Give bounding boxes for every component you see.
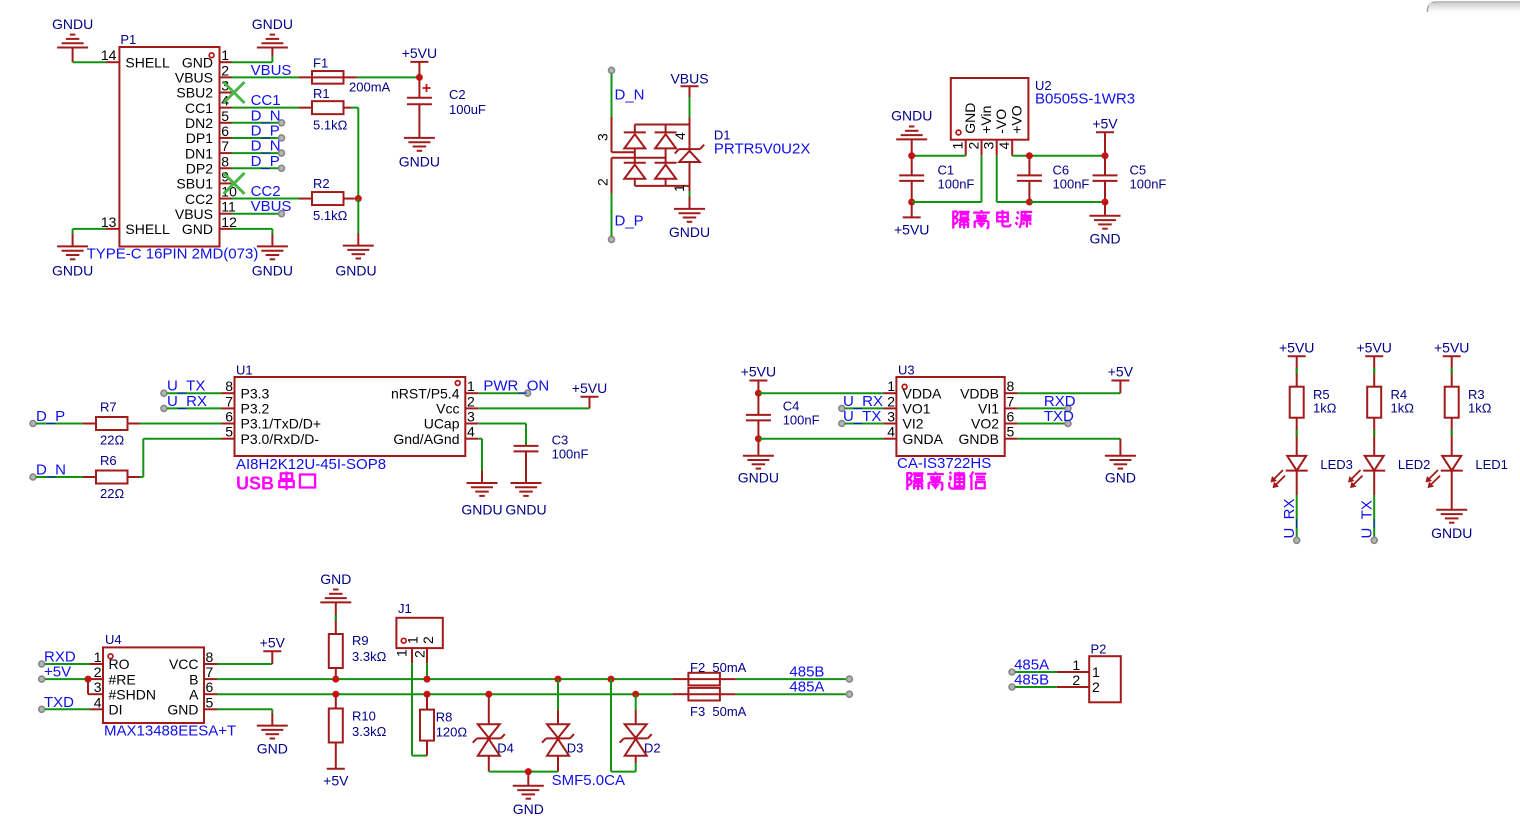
ground GNDU top-left <box>52 16 93 62</box>
svg-text:TXD: TXD <box>44 694 74 711</box>
part number PRTR5V0U2X <box>714 141 810 158</box>
svg-text:4: 4 <box>94 694 102 710</box>
svg-text:11: 11 <box>221 199 236 215</box>
part number B0505S-1WR3 <box>1035 91 1135 108</box>
svg-text:F1: F1 <box>313 56 328 71</box>
svg-text:3.3kΩ: 3.3kΩ <box>352 724 387 739</box>
wire GNDB to GND <box>1018 439 1121 456</box>
designator D1 <box>714 127 731 142</box>
svg-text:1: 1 <box>887 378 895 394</box>
IC U2 isolated DCDC <box>950 78 1029 156</box>
svg-text:1kΩ: 1kΩ <box>1468 401 1492 416</box>
power +5V below R10 <box>323 769 349 789</box>
svg-text:C3: C3 <box>552 433 569 448</box>
net label VBUS pin11 <box>251 198 292 217</box>
power +5VU <box>402 45 437 77</box>
label isolated comms (magenta) <box>907 472 986 491</box>
net label U_RX to U3 <box>839 393 884 412</box>
label USB serial (magenta) <box>236 472 315 494</box>
wire pin14 to GNDU <box>73 61 106 63</box>
svg-text:3: 3 <box>94 679 102 695</box>
net label VBUS <box>251 62 292 79</box>
net label RXD <box>1018 393 1076 412</box>
svg-text:-VO: -VO <box>993 109 1009 134</box>
svg-text:DI: DI <box>109 702 123 718</box>
svg-text:SHELL: SHELL <box>125 221 170 237</box>
fuse F1 200mA <box>299 56 391 95</box>
svg-text:100uF: 100uF <box>449 102 486 117</box>
capacitor C4 100nF <box>746 393 820 439</box>
capacitor C2 100uF polarized <box>407 77 486 138</box>
svg-text:+VO: +VO <box>1009 105 1025 134</box>
wire pin13 to GNDU <box>73 229 106 247</box>
wire LED3 cathode to U_RX <box>1294 471 1300 544</box>
power +5VU left of U3 <box>741 364 776 394</box>
svg-text:#SHDN: #SHDN <box>109 686 156 702</box>
wire U2 pin4 to +5V <box>1012 155 1105 157</box>
wire net D_N pin7 <box>232 152 279 154</box>
svg-text:7: 7 <box>206 664 214 680</box>
svg-text:D4: D4 <box>497 740 514 755</box>
svg-text:120Ω: 120Ω <box>436 725 468 740</box>
svg-text:GND: GND <box>513 801 544 817</box>
net label CC2 <box>251 183 281 200</box>
svg-text:+5VU: +5VU <box>1279 339 1314 355</box>
ground GND below U4 <box>257 726 288 757</box>
svg-text:F3 50mA: F3 50mA <box>690 704 747 719</box>
wire net CC2 pin10 <box>232 198 300 200</box>
svg-text:1kΩ: 1kΩ <box>1313 401 1337 416</box>
net label 485B to P2 <box>1009 672 1057 691</box>
svg-text:R1: R1 <box>313 86 330 101</box>
svg-text:100nF: 100nF <box>783 413 820 428</box>
svg-text:+5V: +5V <box>1092 115 1118 131</box>
ground GNDU top (pin1) <box>252 16 293 48</box>
svg-text:2: 2 <box>887 393 895 409</box>
junction C6 top <box>1026 152 1033 159</box>
svg-text:MAX13488EESA+T: MAX13488EESA+T <box>104 723 236 740</box>
TVS diode D4 <box>473 694 505 771</box>
designator LED3 <box>1320 457 1353 472</box>
svg-text:6: 6 <box>221 123 229 139</box>
svg-text:GNDU: GNDU <box>669 224 710 240</box>
net label RXD to U4 <box>39 649 90 668</box>
wire J1 pin1 down to R8 bottom <box>412 663 427 755</box>
resistor R6 22ohm <box>83 453 140 501</box>
net label D_N <box>251 107 285 126</box>
power +5V above U4 VCC <box>260 634 286 651</box>
net label U_TX to U3 <box>839 408 884 427</box>
wire Gnd pin to GNDU <box>478 439 482 483</box>
svg-text:485B: 485B <box>1014 672 1049 689</box>
svg-text:PRTR5V0U2X: PRTR5V0U2X <box>714 141 810 158</box>
svg-text:3: 3 <box>887 409 895 425</box>
svg-text:GND: GND <box>1089 231 1120 247</box>
svg-text:1: 1 <box>394 649 410 657</box>
capacitor C3 100nF <box>514 433 589 484</box>
part number AI8H2K12U-45I-SOP8 <box>236 456 386 473</box>
LED LED2 <box>1348 418 1385 488</box>
wire 485A out <box>736 691 853 697</box>
part number TYPE-C 16PIN 2MD(073) <box>87 246 259 263</box>
svg-text:GND: GND <box>182 54 213 70</box>
TVS diode D3 <box>542 679 574 772</box>
net stub D_N left <box>30 462 83 481</box>
net label U_RX stub <box>161 393 222 412</box>
ground GNDU below U1 pin4 <box>461 483 502 518</box>
svg-text:U_TX: U_TX <box>843 408 881 425</box>
svg-text:8: 8 <box>221 153 229 169</box>
wire net 485A row <box>217 693 673 695</box>
svg-text:GND: GND <box>182 221 213 237</box>
part number CA-IS3722HS <box>897 455 991 472</box>
capacitor C6 100nF <box>1017 156 1090 202</box>
svg-text:J1: J1 <box>398 601 412 616</box>
wire U4 GND to ground <box>217 709 272 725</box>
svg-text:2: 2 <box>467 393 475 409</box>
svg-text:U_RX: U_RX <box>167 393 207 410</box>
svg-text:VCC: VCC <box>169 656 199 672</box>
wire TVS ground rail <box>489 771 558 773</box>
net label U_TX stub <box>161 378 222 397</box>
wire net D_P pin6 <box>232 137 279 139</box>
svg-text:VBUS: VBUS <box>175 70 213 86</box>
junction J1 pin2 B <box>424 676 431 683</box>
svg-text:SBU1: SBU1 <box>176 176 213 192</box>
designator U2 <box>1035 78 1052 93</box>
svg-text:GND: GND <box>962 103 978 134</box>
junction D2 B <box>608 676 615 683</box>
wire R7 to U1 pin6 <box>140 423 222 425</box>
wire +5VU rail to U2 pin2 <box>912 156 982 202</box>
svg-text:22Ω: 22Ω <box>100 486 124 501</box>
svg-text:PWR_ON: PWR_ON <box>483 378 549 395</box>
label isolated power (Chinese) <box>953 210 1032 229</box>
power +5V above C5 <box>1092 115 1118 155</box>
svg-text:VBUS: VBUS <box>251 198 292 215</box>
svg-text:SHELL: SHELL <box>125 54 170 70</box>
net label TXD <box>1018 408 1074 427</box>
svg-text:C5: C5 <box>1130 163 1147 178</box>
connector J1 jumper <box>394 601 443 663</box>
svg-text:VO1: VO1 <box>903 401 931 417</box>
net label 485A to P2 <box>1009 657 1057 676</box>
svg-text:R2: R2 <box>313 176 330 191</box>
resistor R2 5.1k <box>299 176 355 223</box>
svg-text:1: 1 <box>1072 657 1080 673</box>
svg-text:GNDU: GNDU <box>1431 525 1472 541</box>
svg-text:P2: P2 <box>1091 642 1107 657</box>
svg-text:+5VU: +5VU <box>1434 339 1469 355</box>
svg-text:R9: R9 <box>352 633 369 648</box>
junction D2 A <box>632 691 639 698</box>
svg-text:1: 1 <box>1092 664 1100 680</box>
svg-text:GNDU: GNDU <box>252 16 293 32</box>
svg-text:TXD: TXD <box>1044 408 1074 425</box>
connector P2 <box>1057 642 1121 703</box>
svg-text:+5VU: +5VU <box>894 222 929 238</box>
svg-text:VDDA: VDDA <box>903 385 943 401</box>
svg-text:4: 4 <box>467 424 475 440</box>
svg-text:100nF: 100nF <box>938 177 975 192</box>
power +5VU right of U1 <box>572 380 607 409</box>
svg-text:DP1: DP1 <box>186 130 213 146</box>
svg-text:1: 1 <box>405 636 421 644</box>
resistor R3 1k <box>1445 356 1492 417</box>
TVS diode D2 <box>620 694 652 763</box>
ground GNDU below C3 <box>505 483 546 518</box>
net label +5V to U4 <box>39 664 88 683</box>
svg-text:+5VU: +5VU <box>402 45 437 61</box>
svg-text:AI8H2K12U-45I-SOP8: AI8H2K12U-45I-SOP8 <box>236 456 386 473</box>
svg-text:4: 4 <box>672 132 688 140</box>
wire pin1 to GNDU <box>232 48 273 63</box>
no-connect X pin9 <box>224 173 245 194</box>
svg-text:D_N: D_N <box>615 87 645 104</box>
svg-text:GNDU: GNDU <box>505 502 546 518</box>
junction U4 pin2/pin3 <box>85 676 92 683</box>
svg-text:C2: C2 <box>449 87 466 102</box>
svg-text:13: 13 <box>101 214 117 230</box>
fuse F3 50mA <box>673 688 747 719</box>
IC U3 isolator <box>883 363 1017 457</box>
svg-text:B: B <box>189 671 198 687</box>
svg-text:D_N: D_N <box>36 462 66 479</box>
svg-text:VBUS: VBUS <box>251 62 292 79</box>
part number MAX13488EESA+T <box>104 723 236 740</box>
svg-text:VO2: VO2 <box>971 416 999 432</box>
power VBUS above D1 <box>670 71 708 98</box>
wire J1 pin2 to B <box>426 663 428 679</box>
svg-text:USB: USB <box>236 474 274 494</box>
svg-text:2: 2 <box>1092 679 1100 695</box>
svg-text:TYPE-C 16PIN 2MD(073): TYPE-C 16PIN 2MD(073) <box>87 246 259 263</box>
net label D_P <box>251 122 285 141</box>
junction R2 node <box>355 195 362 202</box>
svg-text:200mA: 200mA <box>349 80 391 95</box>
svg-text:1: 1 <box>950 142 966 150</box>
wire VDDB to +5V <box>1018 392 1121 394</box>
designator D2 <box>644 740 661 755</box>
resistor R7 22ohm <box>83 400 140 448</box>
svg-text:UCap: UCap <box>424 416 460 432</box>
window edge top-right <box>1428 2 1520 12</box>
svg-text:GNDU: GNDU <box>399 154 440 170</box>
svg-text:5.1kΩ: 5.1kΩ <box>313 118 348 133</box>
svg-text:GNDU: GNDU <box>891 108 932 124</box>
power +5VU above R5 <box>1279 339 1314 356</box>
svg-text:RO: RO <box>109 656 130 672</box>
ground GND above R9 <box>320 571 351 602</box>
LED LED3 <box>1271 418 1308 488</box>
svg-text:1kΩ: 1kΩ <box>1391 401 1415 416</box>
wire D1 pin1 to GNDU <box>689 191 691 209</box>
svg-text:Gnd/AGnd: Gnd/AGnd <box>393 431 459 447</box>
wire pin12 to GNDU <box>232 229 273 247</box>
junction R10 to A <box>332 691 339 698</box>
ground GND right of U3 <box>1105 456 1136 486</box>
svg-text:R6: R6 <box>100 453 117 468</box>
svg-text:485A: 485A <box>789 679 824 696</box>
svg-text:5: 5 <box>221 108 229 124</box>
wire Vcc to +5VU <box>478 407 589 409</box>
svg-text:2: 2 <box>221 62 229 78</box>
net label PWR_ON <box>478 378 549 397</box>
svg-text:DP2: DP2 <box>186 160 213 176</box>
svg-text:8: 8 <box>1007 378 1015 394</box>
svg-text:D_P: D_P <box>615 212 644 229</box>
svg-text:+5V: +5V <box>44 664 71 681</box>
svg-text:4: 4 <box>996 142 1012 150</box>
wire F1 to +5VU node <box>357 76 420 78</box>
power +5VU above R3 <box>1434 339 1469 356</box>
svg-text:+Vin: +Vin <box>978 106 994 134</box>
ground GNDU below LED1 <box>1431 510 1472 541</box>
svg-text:2: 2 <box>420 636 436 644</box>
svg-text:VBUS: VBUS <box>670 71 708 87</box>
wire +5VU to U3 pin1 <box>758 392 883 394</box>
svg-text:1: 1 <box>221 47 229 63</box>
junction C1 top <box>908 152 915 159</box>
svg-text:DN2: DN2 <box>185 115 213 131</box>
connector P1 TYPE-C <box>101 32 237 247</box>
ground GND below C5 <box>1089 202 1120 247</box>
svg-text:5: 5 <box>225 424 233 440</box>
svg-text:+5V: +5V <box>1108 364 1134 380</box>
designator D3 <box>567 740 584 755</box>
power +5V right of U3 <box>1108 364 1134 394</box>
svg-text:D2: D2 <box>644 740 661 755</box>
svg-text:7: 7 <box>225 393 233 409</box>
power +5VU above R4 <box>1356 339 1391 356</box>
junction R9 to B <box>332 676 339 683</box>
svg-text:P1: P1 <box>120 32 136 47</box>
junction D3 B <box>555 676 562 683</box>
svg-text:D_P: D_P <box>36 408 65 425</box>
svg-text:U_RX: U_RX <box>1281 498 1298 538</box>
svg-text:5: 5 <box>206 694 214 710</box>
svg-text:U3: U3 <box>898 363 915 378</box>
svg-text:LED1: LED1 <box>1475 457 1508 472</box>
wire LED1 cathode to GNDU <box>1451 471 1453 510</box>
svg-text:GND: GND <box>167 702 198 718</box>
wire net 485B row <box>217 678 673 680</box>
net label 485B <box>789 664 824 681</box>
resistor R10 3.3k <box>329 694 387 769</box>
svg-text:R10: R10 <box>352 709 376 724</box>
node D_P stub <box>609 194 644 243</box>
svg-text:CC2: CC2 <box>185 191 213 207</box>
junction TVS gnd <box>525 768 532 775</box>
junction C4 top <box>755 390 762 397</box>
svg-text:GNDU: GNDU <box>52 263 93 279</box>
svg-text:2: 2 <box>595 178 611 186</box>
svg-text:SBU2: SBU2 <box>176 85 213 101</box>
wire net D_N pin5 <box>232 122 279 124</box>
svg-text:GNDB: GNDB <box>959 431 999 447</box>
wire VCC to +5V <box>217 651 272 664</box>
svg-text:GNDU: GNDU <box>52 16 93 32</box>
svg-text:C1: C1 <box>938 163 955 178</box>
wire junction to pin3 <box>88 679 90 694</box>
wire LED2 cathode to U_TX <box>1371 471 1377 544</box>
svg-text:A: A <box>189 686 199 702</box>
net label D_P pin8 <box>251 153 285 172</box>
node D_N stub <box>609 67 645 117</box>
svg-text:100nF: 100nF <box>1130 177 1167 192</box>
svg-text:GND: GND <box>320 571 351 587</box>
svg-text:2: 2 <box>412 650 428 658</box>
ground GNDU below C4 <box>738 439 779 486</box>
svg-text:6: 6 <box>225 409 233 425</box>
svg-text:P3.2: P3.2 <box>241 401 270 417</box>
svg-text:D3: D3 <box>567 740 584 755</box>
wire VBUS to D1 pin4 <box>689 97 691 119</box>
svg-text:7: 7 <box>1007 393 1015 409</box>
svg-text:D_P: D_P <box>251 153 280 170</box>
svg-text:R8: R8 <box>436 709 453 724</box>
junction D4 A <box>485 691 492 698</box>
net label U_TX vertical <box>1359 500 1376 538</box>
svg-text:+5VU: +5VU <box>741 364 776 380</box>
no-connect X pin3 <box>224 82 245 103</box>
svg-text:nRST/P5.4: nRST/P5.4 <box>391 385 460 401</box>
svg-text:3.3kΩ: 3.3kΩ <box>352 649 387 664</box>
wire R2 node to ground <box>357 199 359 246</box>
svg-text:8: 8 <box>225 378 233 394</box>
net stub D_P left <box>30 408 83 427</box>
capacitor C5 100nF <box>1093 156 1167 202</box>
capacitor C1 100nF <box>899 156 974 202</box>
svg-text:6: 6 <box>1007 409 1015 425</box>
junction R8 top A <box>424 691 431 698</box>
svg-text:Vcc: Vcc <box>436 401 459 417</box>
svg-text:SMF5.0CA: SMF5.0CA <box>552 772 625 789</box>
svg-text:100nF: 100nF <box>552 447 589 462</box>
wire GNDU rail to U2 pin1 <box>912 155 966 157</box>
svg-text:P3.1/TxD/D+: P3.1/TxD/D+ <box>241 416 322 432</box>
svg-text:VI1: VI1 <box>978 401 999 417</box>
svg-text:VI2: VI2 <box>903 416 924 432</box>
svg-text:U4: U4 <box>105 632 122 647</box>
svg-text:GND: GND <box>257 741 288 757</box>
resistor R8 120ohm <box>420 694 467 755</box>
wire net VBUS pin11 <box>232 213 279 215</box>
svg-text:2: 2 <box>1072 672 1080 688</box>
ground GNDU below R2 <box>335 246 376 279</box>
ground GND below TVS <box>513 772 544 817</box>
power +5VU below C1 <box>894 202 929 238</box>
ground GNDU below pin12 <box>252 246 293 278</box>
svg-text:LED3: LED3 <box>1320 457 1353 472</box>
designator D4 <box>497 740 514 755</box>
net label TXD to U4 <box>39 694 90 713</box>
svg-text:B0505S-1WR3: B0505S-1WR3 <box>1035 91 1135 108</box>
net label CC1 <box>251 92 281 109</box>
svg-text:GNDU: GNDU <box>335 263 376 279</box>
IC U1 MCU <box>222 363 479 457</box>
svg-text:4: 4 <box>887 424 895 440</box>
junction C1 bottom <box>908 199 915 206</box>
svg-text:C6: C6 <box>1053 163 1070 178</box>
svg-text:12: 12 <box>221 214 237 230</box>
svg-text:5.1kΩ: 5.1kΩ <box>313 208 348 223</box>
svg-text:1: 1 <box>467 378 475 394</box>
designator LED2 <box>1398 457 1431 472</box>
junction C5 top <box>1102 152 1109 159</box>
svg-text:F2 50mA: F2 50mA <box>690 660 747 675</box>
net label U_RX vertical <box>1281 498 1298 538</box>
